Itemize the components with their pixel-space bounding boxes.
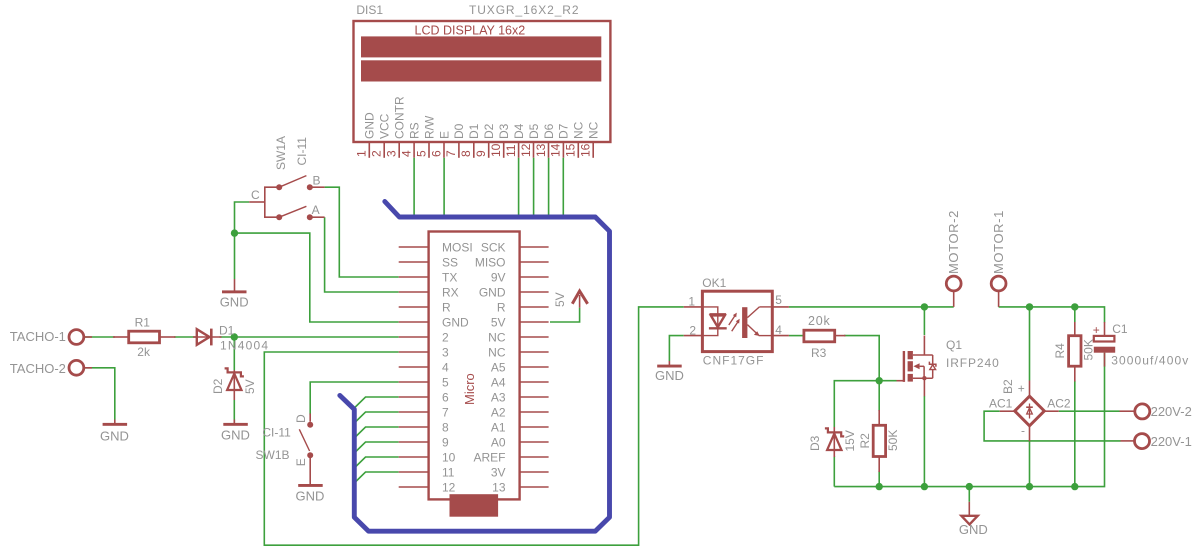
svg-text:GND: GND	[221, 427, 250, 442]
junction node Q1 source-ground	[921, 483, 928, 490]
svg-text:C: C	[251, 188, 260, 202]
svg-text:R4: R4	[1053, 343, 1067, 359]
junction node B2 plus-rail	[1026, 303, 1033, 310]
wire R4 top	[1074, 307, 1076, 322]
Micro left pin SS	[399, 256, 458, 270]
svg-text:D4: D4	[512, 123, 526, 139]
wire R2 to ground rail	[878, 471, 880, 487]
Micro left pin 8	[399, 421, 449, 435]
ground rail wire	[834, 366, 1104, 487]
svg-text:TACHO-1: TACHO-1	[10, 329, 66, 344]
Micro right pin R	[497, 301, 549, 315]
wire node to D2 zener	[233, 337, 235, 370]
svg-text:TACHO-2: TACHO-2	[10, 361, 66, 376]
wire B2 minus to ground rail	[1029, 441, 1031, 487]
svg-text:12: 12	[519, 143, 533, 157]
svg-text:+: +	[1018, 382, 1025, 396]
Micro right pin A0	[491, 436, 549, 450]
Micro left pin GND	[399, 316, 469, 330]
LCD display row 2 bar	[361, 60, 601, 81]
Micro left pin 7	[399, 406, 449, 420]
svg-text:TX: TX	[442, 271, 457, 285]
svg-text:NC: NC	[587, 121, 601, 139]
svg-text:MISO: MISO	[475, 256, 506, 270]
svg-text:D5: D5	[527, 123, 541, 139]
svg-text:8: 8	[459, 150, 473, 157]
wire R1 to D1	[174, 336, 196, 338]
svg-text:220V-1: 220V-1	[1151, 434, 1192, 449]
ground GND (power stage, arrow symbol)	[959, 502, 988, 537]
svg-text:10: 10	[489, 143, 503, 157]
wire SW1A junction to GND symbol	[234, 233, 236, 279]
svg-text:A: A	[312, 203, 320, 217]
svg-text:D1: D1	[467, 123, 481, 139]
svg-text:A3: A3	[491, 391, 506, 405]
svg-text:RS: RS	[407, 122, 421, 139]
Micro left pin 6	[399, 391, 449, 405]
Micro left pin 4	[399, 361, 449, 375]
svg-text:AC2: AC2	[1047, 397, 1071, 411]
svg-text:NC: NC	[488, 346, 506, 360]
svg-text:R: R	[442, 301, 451, 315]
svg-text:B2: B2	[1001, 379, 1015, 394]
svg-text:A0: A0	[491, 436, 506, 450]
wire D3 anode to ground rail	[833, 456, 835, 487]
Micro right pin MISO	[475, 256, 549, 270]
resistor R4 50K	[1053, 322, 1096, 382]
wire Q1 source to ground rail	[923, 396, 925, 487]
svg-text:GND: GND	[363, 112, 377, 139]
wire TACHO-2 to GND	[84, 368, 115, 420]
wire C1 bottom	[1104, 353, 1106, 367]
connector MOTOR-2	[946, 210, 961, 307]
Micro right pin A3	[491, 391, 549, 405]
svg-text:R1: R1	[135, 316, 151, 330]
connector MOTOR-1	[991, 210, 1006, 307]
svg-text:15: 15	[564, 143, 578, 157]
Micro left pin 10	[399, 451, 456, 465]
resistor R1 2k	[113, 316, 176, 360]
resistor R2 50K	[858, 410, 900, 472]
junction node R2-ground	[876, 483, 883, 490]
LCD pin 2 VCC	[370, 113, 392, 157]
svg-text:E: E	[437, 131, 451, 139]
svg-text:AREF: AREF	[473, 451, 505, 465]
junction node B2 minus-ground	[1026, 483, 1033, 490]
svg-text:5: 5	[775, 293, 782, 307]
wire D1 cathode to Micro pin 2 (node)	[220, 336, 399, 338]
svg-text:9: 9	[442, 436, 449, 450]
junction node SW1A-C	[231, 229, 238, 236]
Micro left pin 2	[399, 331, 449, 345]
svg-text:8: 8	[442, 421, 449, 435]
ground GND (SW1B)	[296, 484, 325, 504]
Micro right pin GND	[479, 286, 549, 300]
svg-text:TUXGR_16X2_R2: TUXGR_16X2_R2	[469, 3, 579, 17]
wire bus tap to Micro pin 9	[354, 442, 398, 453]
Micro right pin A1	[491, 421, 549, 435]
svg-text:LCD DISPLAY 16x2: LCD DISPLAY 16x2	[415, 24, 526, 38]
ground GND (OK1)	[655, 361, 684, 383]
svg-text:+: +	[1093, 323, 1100, 337]
LCD pin 8 D1	[459, 123, 481, 157]
svg-text:D3: D3	[497, 123, 511, 139]
svg-text:R: R	[497, 301, 506, 315]
svg-text:A1: A1	[491, 421, 506, 435]
Micro left pin 5	[399, 376, 449, 390]
svg-text:3: 3	[442, 346, 449, 360]
svg-text:9: 9	[474, 150, 488, 157]
svg-text:9V: 9V	[491, 271, 506, 285]
Micro right pin A4	[491, 376, 549, 390]
Micro right pin 3V	[491, 466, 549, 480]
transistor Q1 IRFP240 (N-MOSFET)	[897, 336, 1000, 397]
Micro right pin A2	[491, 406, 549, 420]
svg-text:B: B	[313, 174, 321, 188]
wire gate node to Q1 gate and D3 branch	[834, 381, 896, 427]
wire LCD pin 14 to bus	[562, 158, 564, 217]
svg-text:4: 4	[442, 361, 449, 375]
LCD pin 11 D4	[504, 123, 526, 157]
svg-text:3: 3	[385, 150, 399, 157]
LCD pin 16 NC	[579, 121, 601, 157]
junction node GND tap	[966, 483, 973, 490]
svg-text:D2: D2	[211, 378, 225, 394]
svg-text:MOSI: MOSI	[442, 241, 473, 255]
svg-text:1N4004: 1N4004	[220, 339, 269, 353]
svg-text:NC: NC	[572, 121, 586, 139]
svg-text:R3: R3	[811, 346, 827, 360]
svg-text:4: 4	[399, 150, 413, 157]
Micro right pin NC	[488, 331, 548, 345]
Micro right pin 5V	[491, 316, 549, 330]
wire bus tap to Micro pin 8	[354, 427, 398, 438]
svg-text:GND: GND	[442, 316, 469, 330]
optocoupler OK1 CNF17GF	[684, 276, 789, 367]
wire B2 plus to rail	[1029, 307, 1031, 381]
svg-text:3V: 3V	[491, 466, 506, 480]
junction node R4-ground	[1071, 483, 1078, 490]
junction node R4-rail	[1071, 303, 1078, 310]
svg-text:13: 13	[534, 143, 548, 157]
Micro left pin RX	[399, 286, 459, 300]
wire LCD pin 12 to bus	[533, 158, 535, 217]
capacitor C1 3000uf/400v (electrolytic)	[1093, 322, 1190, 368]
motor supply rail wire	[999, 307, 1105, 323]
svg-text:D: D	[294, 414, 308, 423]
svg-text:GND: GND	[655, 368, 684, 383]
svg-text:GND: GND	[100, 429, 129, 444]
svg-text:GND: GND	[479, 286, 506, 300]
zener diode D2 5V	[211, 368, 257, 400]
LCD pin 14 D7	[549, 123, 571, 157]
svg-text:5V: 5V	[491, 316, 506, 330]
svg-text:3000uf/400v: 3000uf/400v	[1111, 354, 1189, 368]
svg-text:D6: D6	[542, 123, 556, 139]
svg-text:SCK: SCK	[481, 241, 506, 255]
svg-text:C1: C1	[1112, 322, 1128, 336]
Micro right pin 9V	[491, 271, 549, 285]
Micro left pin 3	[399, 346, 449, 360]
svg-text:CI-11: CI-11	[295, 137, 309, 166]
wire R4 bottom	[1074, 381, 1076, 487]
svg-text:NC: NC	[488, 331, 506, 345]
svg-text:SS: SS	[442, 256, 458, 270]
LCD pin 12 D5	[519, 123, 541, 157]
wire OK1 pin 5 to MOTOR-2 and Q1 drain	[789, 306, 954, 308]
svg-text:R2: R2	[858, 433, 872, 449]
svg-text:MOTOR-1: MOTOR-1	[991, 210, 1006, 274]
svg-text:Q1: Q1	[946, 338, 962, 352]
svg-text:-: -	[1021, 424, 1025, 438]
svg-text:CI-11: CI-11	[262, 426, 291, 440]
LCD pin 15 NC	[564, 121, 586, 157]
svg-text:CNF17GF: CNF17GF	[703, 353, 765, 367]
svg-text:1: 1	[355, 150, 369, 157]
wire B2 AC1 to 220V-1	[984, 411, 1120, 441]
Micro U1 (Arduino) body	[429, 232, 520, 500]
ground GND (TACHO-2)	[100, 420, 129, 444]
svg-text:D2: D2	[482, 123, 496, 139]
wire R3 to Q1 gate node	[844, 336, 879, 381]
svg-text:11: 11	[504, 144, 518, 157]
svg-text:GND: GND	[220, 294, 249, 309]
svg-text:14: 14	[549, 143, 563, 157]
LCD pin 10 D3	[489, 123, 511, 157]
svg-text:D7: D7	[557, 123, 571, 139]
svg-text:DIS1: DIS1	[356, 3, 383, 17]
svg-text:E: E	[294, 458, 308, 466]
LCD pin 6 E	[429, 131, 451, 158]
svg-text:D0: D0	[452, 123, 466, 139]
svg-text:12: 12	[442, 481, 456, 495]
svg-text:2k: 2k	[137, 345, 151, 359]
LCD pin 1 GND	[355, 112, 377, 158]
connector TACHO-1	[10, 329, 92, 344]
LCD pin 13 D6	[534, 123, 556, 157]
svg-text:R/W: R/W	[422, 115, 436, 139]
svg-text:7: 7	[444, 150, 458, 157]
svg-text:SW1B: SW1B	[256, 448, 290, 462]
wire B2 AC2 to 220V-2	[1059, 410, 1120, 412]
wire Micro 5V pin to 5V supply arrow	[550, 308, 580, 322]
svg-text:RX: RX	[442, 286, 459, 300]
svg-text:A5: A5	[491, 361, 506, 375]
wire TACHO-1 to R1	[84, 336, 115, 338]
svg-text:MOTOR-2: MOTOR-2	[946, 210, 961, 274]
svg-text:IRFP240: IRFP240	[946, 356, 1000, 370]
svg-text:20k: 20k	[808, 314, 831, 328]
wire ground rail to GND symbol	[968, 487, 970, 502]
wire LCD pin 11 to bus	[518, 158, 520, 217]
ground GND (SW1A)	[220, 279, 249, 309]
svg-text:5: 5	[414, 150, 428, 157]
svg-text:VCC: VCC	[378, 113, 392, 139]
Micro left pin 9	[399, 436, 449, 450]
Micro left pin TX	[399, 271, 458, 285]
svg-text:D3: D3	[808, 435, 822, 451]
svg-text:2: 2	[442, 331, 449, 345]
wire LCD pin 13 to bus	[548, 158, 550, 217]
junction node D1 cathode	[231, 333, 238, 340]
svg-text:5V: 5V	[553, 292, 567, 307]
LCD pin 4 RS	[399, 122, 421, 157]
wire gate node to R2	[878, 381, 880, 411]
bus wire (blue) routing LCD signals around Micro	[340, 202, 610, 532]
wire OK1 pin 2 to GND	[669, 336, 683, 361]
LCD pin 5 R/W	[414, 115, 436, 158]
wire Q1 drain	[923, 307, 925, 335]
svg-text:5: 5	[442, 376, 449, 390]
svg-text:5V: 5V	[243, 379, 257, 394]
svg-text:7: 7	[442, 406, 449, 420]
wire LCD pin 6 to bus	[443, 158, 445, 217]
bridge rectifier B2	[989, 379, 1071, 441]
ground GND (D2)	[221, 400, 250, 442]
svg-text:CONTR: CONTR	[393, 96, 407, 139]
svg-text:SW1A: SW1A	[274, 136, 288, 170]
svg-text:D1: D1	[219, 324, 235, 338]
svg-text:6: 6	[429, 150, 443, 157]
5V supply arrow	[553, 291, 588, 308]
wire bus tap to Micro pin 11	[354, 472, 398, 483]
svg-text:Micro: Micro	[462, 373, 477, 405]
wire SW1A common C to junction and Micro GND	[235, 202, 250, 233]
svg-text:16: 16	[579, 143, 593, 157]
wire bus tap to Micro pin 7	[354, 412, 398, 423]
LCD display row 1 bar	[361, 36, 601, 57]
wire bus tap to Micro pin 6	[354, 397, 398, 408]
svg-text:11: 11	[442, 466, 455, 480]
diode D1 1N4004	[193, 324, 269, 353]
svg-text:GND: GND	[959, 522, 988, 537]
wire SW1A contact A to Micro RX	[325, 217, 399, 292]
Micro right pin 13	[492, 481, 548, 495]
LCD pin 3 CONTR	[385, 96, 407, 158]
svg-text:GND: GND	[296, 489, 325, 504]
Micro left pin MOSI	[399, 241, 473, 255]
svg-text:15V: 15V	[843, 430, 857, 451]
svg-text:AC1: AC1	[989, 397, 1013, 411]
svg-text:A2: A2	[491, 406, 506, 420]
Micro left pin 12	[399, 481, 456, 495]
switch SW1A CI-11	[249, 136, 324, 220]
svg-text:OK1: OK1	[702, 276, 726, 290]
LCD display DIS1 TUXGR_16X2_R2	[354, 3, 611, 142]
wire SW1A contact B to Micro TX	[325, 187, 399, 277]
wire OK1 pin 4 to R3	[789, 335, 804, 337]
LCD pin 9 D2	[474, 123, 496, 157]
junction node Q1 drain	[921, 303, 928, 310]
Micro left pin R	[399, 301, 451, 315]
wire Micro pin 3 to OK1 pin 1 (around bottom)	[264, 307, 683, 545]
LCD pin 7 D0	[444, 123, 466, 157]
connector 220V-2	[1120, 404, 1192, 419]
wire bus tap to Micro pin 10	[354, 457, 398, 468]
svg-text:220V-2: 220V-2	[1151, 404, 1192, 419]
zener diode D3 15V	[808, 427, 857, 457]
svg-text:2: 2	[370, 150, 384, 157]
Micro right pin A5	[491, 361, 549, 375]
switch SW1B CI-11	[256, 414, 314, 485]
Micro USB connector block	[450, 494, 499, 517]
wire LCD pin 4 to bus	[413, 158, 415, 217]
svg-text:13: 13	[492, 481, 506, 495]
connector TACHO-2	[10, 360, 92, 375]
resistor R3 20k	[803, 314, 846, 360]
Micro left pin 11	[399, 466, 455, 480]
Micro right pin AREF	[473, 451, 548, 465]
junction node Q1 gate	[876, 377, 883, 384]
svg-text:10: 10	[442, 451, 456, 465]
svg-text:6: 6	[442, 391, 449, 405]
Micro right pin NC	[488, 346, 548, 360]
Micro right pin SCK	[481, 241, 549, 255]
connector 220V-1	[1121, 434, 1192, 449]
svg-text:A4: A4	[491, 376, 506, 390]
wire SW1B contact D to Micro pin 5	[310, 382, 399, 415]
svg-text:50K: 50K	[886, 430, 900, 451]
